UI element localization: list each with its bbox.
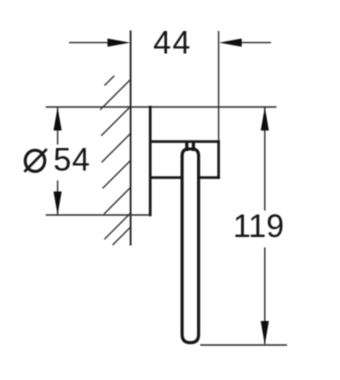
top extension line y=107 (plate top, 54 top, 119 top): [46, 106, 277, 108]
dimension 44 left line: [69, 42, 112, 44]
wall hatching: [100, 76, 130, 245]
ring pivot stem: [187, 141, 194, 151]
dimension 54 vertical line upper segment: [57, 107, 59, 145]
wall line / left extension line of 44: [130, 31, 132, 246]
towel ring (side view): [182, 149, 199, 343]
holder arm outline: [149, 141, 220, 179]
dimension 44 right arrow: [219, 39, 242, 47]
right extension line of 44: [218, 31, 220, 142]
dimension 119 top arrow: [261, 107, 269, 130]
dimension 44 left arrow: [108, 39, 131, 47]
svg-text:44: 44: [153, 25, 192, 61]
bottom-left extension line y=215 (plate bottom, 54 bottom): [46, 214, 151, 216]
escutcheon plate right edge: [149, 106, 152, 216]
svg-text:119: 119: [233, 208, 284, 244]
dimension 119 bottom arrow: [261, 321, 269, 345]
svg-text:54: 54: [53, 142, 90, 178]
dimension 54 label diameter symbol: [24, 149, 46, 172]
dimension 54 top arrow: [54, 107, 62, 130]
dimension 119 vertical line upper segment: [264, 107, 266, 211]
ring bottom extension line y=345: [200, 344, 287, 346]
dimension 119 vertical line lower segment: [264, 248, 266, 345]
dimension 54 bottom arrow: [54, 192, 62, 215]
dimension 54 vertical line lower segment: [57, 181, 59, 216]
dimension 44 right line: [237, 42, 271, 44]
